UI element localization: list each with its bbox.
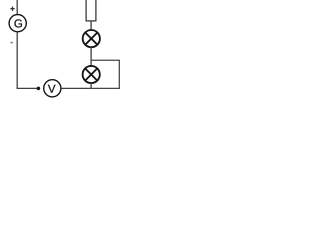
wire: left branch from top edge down to generator	[16, 0, 18, 15]
voltmeter V	[44, 80, 61, 97]
+ polarity label	[10, 7, 14, 11]
lamp L2	[83, 66, 100, 83]
junction dot (voltmeter terminal)	[37, 87, 40, 90]
lamp L1	[83, 30, 100, 47]
wire: voltmeter right along bottom to lamp L2 bottom junction	[61, 87, 91, 89]
- polarity label	[10, 42, 13, 44]
wire: lamp L2 bottom stub to bottom wire	[90, 83, 92, 89]
wire: generator down and along bottom to junction dot	[17, 32, 37, 89]
resistor (cropped at top edge)	[86, 0, 96, 21]
wire: lamp L1 bottom through T junction to lamp L2 top	[90, 47, 92, 66]
wire: resistor bottom to lamp L1 top	[90, 21, 92, 31]
wire: bottom right, up right side, back to T junction above lamp L2	[91, 60, 119, 88]
generator G	[9, 15, 26, 32]
